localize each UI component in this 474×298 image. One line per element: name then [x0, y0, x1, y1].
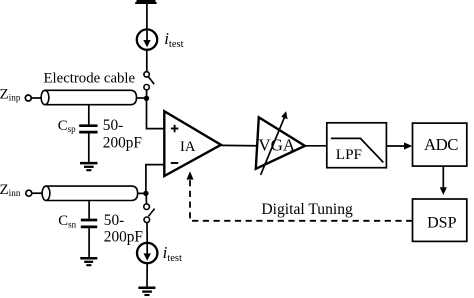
ground (below C_sp) [80, 163, 98, 170]
svg-text:LPF: LPF [336, 146, 362, 163]
terminal Z_inn [26, 190, 32, 196]
wire [88, 105, 90, 125]
wire [146, 4, 148, 29]
wire [138, 192, 146, 194]
block DSP [413, 199, 467, 241]
capacitor C_sn [81, 220, 97, 227]
wire to IA + input [147, 98, 165, 128]
svg-text:ADC: ADC [424, 135, 458, 154]
wire [31, 97, 41, 99]
terminal Z_inp [25, 95, 31, 101]
switch S2 [144, 204, 155, 223]
svg-text:Electrode cable: Electrode cable [43, 70, 135, 86]
coax cable lower [42, 186, 138, 200]
wire [88, 228, 90, 257]
ground (bottom) [138, 288, 155, 295]
current source I1 [137, 29, 157, 49]
svg-text:VGA: VGA [258, 135, 296, 154]
svg-text:200pF: 200pF [103, 135, 142, 152]
wire to IA - input [146, 165, 165, 194]
svg-text:Digital Tuning: Digital Tuning [261, 201, 353, 218]
wire [88, 201, 90, 219]
ground (top, inverted) [135, 1, 156, 3]
wire IA to VGA [221, 144, 258, 146]
capacitor C_sp [79, 126, 97, 132]
wire [32, 192, 42, 194]
switch S1 [144, 72, 154, 90]
wire [137, 97, 147, 99]
wire VGA to LPF [305, 145, 327, 147]
wire [146, 90, 148, 98]
filter LPF [327, 123, 387, 168]
wire digital tuning (dashed) [190, 180, 412, 221]
wire [145, 195, 147, 205]
svg-text:50-: 50- [103, 117, 123, 134]
coax cable upper [41, 90, 136, 104]
current source I2 [137, 243, 157, 263]
wire [146, 264, 148, 287]
amplifier VGA U2 [256, 111, 305, 175]
node B (junction) [143, 191, 148, 196]
wire LPF to ADC (arrow) [386, 145, 405, 147]
svg-text:200pF: 200pF [104, 228, 143, 245]
svg-text:IA: IA [180, 139, 196, 155]
ground (below C_sn) [80, 258, 97, 265]
wire [146, 50, 148, 71]
wire [146, 223, 148, 243]
svg-text:50-: 50- [104, 212, 124, 229]
wire [88, 133, 90, 162]
wire ADC to DSP (arrow) [442, 166, 444, 188]
node A (junction) [144, 96, 149, 101]
block ADC [413, 123, 467, 166]
svg-text:DSP: DSP [427, 214, 456, 231]
op-amp IA U1 [164, 111, 221, 176]
